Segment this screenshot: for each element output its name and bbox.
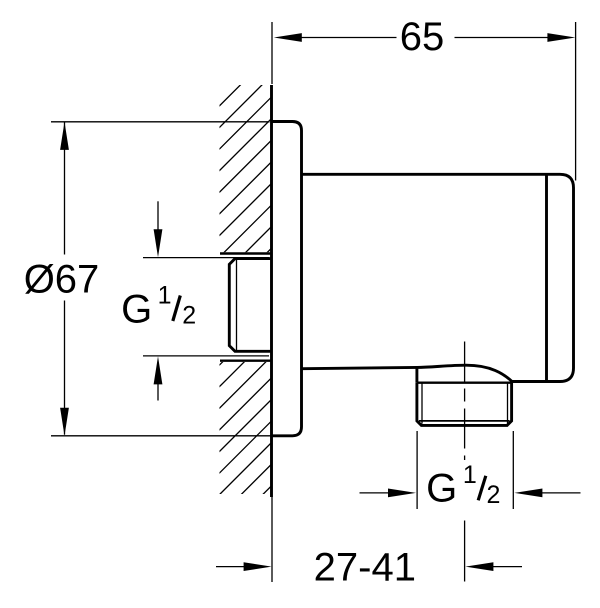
- dim 65 line left segment: [300, 37, 397, 39]
- dim 67 top extension line: [51, 121, 270, 123]
- dim 65 line right segment: [455, 37, 550, 39]
- G half left lower arrow tail: [157, 384, 159, 401]
- wall hole bottom edge: [220, 360, 272, 362]
- dim 27-41 left arrow: [244, 562, 272, 571]
- G half bottom left arrow tail: [360, 492, 390, 494]
- outlet centerline upper: [464, 342, 466, 461]
- flange (escutcheon): [272, 122, 302, 436]
- G half bottom text slash: [478, 476, 486, 501]
- dim 67 line lower segment: [64, 301, 66, 435]
- G half left top extension line: [143, 257, 269, 259]
- G half left bottom extension line: [143, 355, 269, 357]
- G half bottom left extension line: [416, 431, 418, 509]
- svg-text:27-41: 27-41: [314, 546, 416, 590]
- dim 65 right extension line: [575, 22, 577, 181]
- svg-text:65: 65: [400, 15, 445, 59]
- inlet socket thread line: [236, 259, 238, 350]
- dim 65 left arrow: [274, 33, 302, 42]
- outlet thread chamfer line: [419, 420, 510, 422]
- svg-text:1: 1: [463, 461, 477, 489]
- wall hole top edge: [220, 252, 272, 254]
- dim 27-41 right arrow tail: [493, 566, 522, 568]
- G half bottom right extension line: [512, 431, 514, 509]
- inlet socket outline: [229, 259, 271, 352]
- dim 67 bottom arrow: [60, 408, 69, 436]
- body outline: [302, 174, 574, 381]
- svg-text:2: 2: [182, 301, 196, 329]
- body end-cap line: [545, 174, 548, 381]
- dim 27-41 left extension line: [271, 497, 273, 582]
- wall surface line: [270, 85, 273, 497]
- svg-text:G: G: [426, 467, 457, 511]
- G half bottom right arrow tail: [542, 492, 581, 494]
- G half left upper arrow: [154, 229, 163, 257]
- svg-text:G: G: [121, 288, 152, 332]
- dim 65 right arrow: [547, 33, 575, 42]
- outlet thread outline: [417, 383, 512, 426]
- dim 67 top arrow: [60, 122, 69, 150]
- outlet thread shoulder: [417, 382, 512, 384]
- outlet thread root line left: [421, 384, 423, 424]
- dim 65 left extension line: [271, 22, 273, 84]
- G half left lower arrow: [154, 356, 163, 384]
- outlet thread root line right: [507, 384, 509, 424]
- G half left text slash: [173, 296, 181, 322]
- outlet centerline lower: [464, 521, 466, 582]
- dim 67 bottom extension line: [51, 435, 271, 437]
- svg-text:Ø67: Ø67: [24, 258, 100, 302]
- G half bottom left arrow: [388, 489, 416, 498]
- svg-text:1: 1: [158, 282, 172, 310]
- dim 67 line upper segment: [64, 123, 66, 255]
- dim 27-41 left arrow tail: [216, 566, 246, 568]
- outlet boss left edge: [415, 367, 418, 382]
- svg-text:2: 2: [487, 481, 501, 509]
- dim 27-41 right arrow: [465, 562, 493, 571]
- G half bottom right arrow: [514, 489, 542, 498]
- G half left upper arrow tail: [157, 201, 159, 229]
